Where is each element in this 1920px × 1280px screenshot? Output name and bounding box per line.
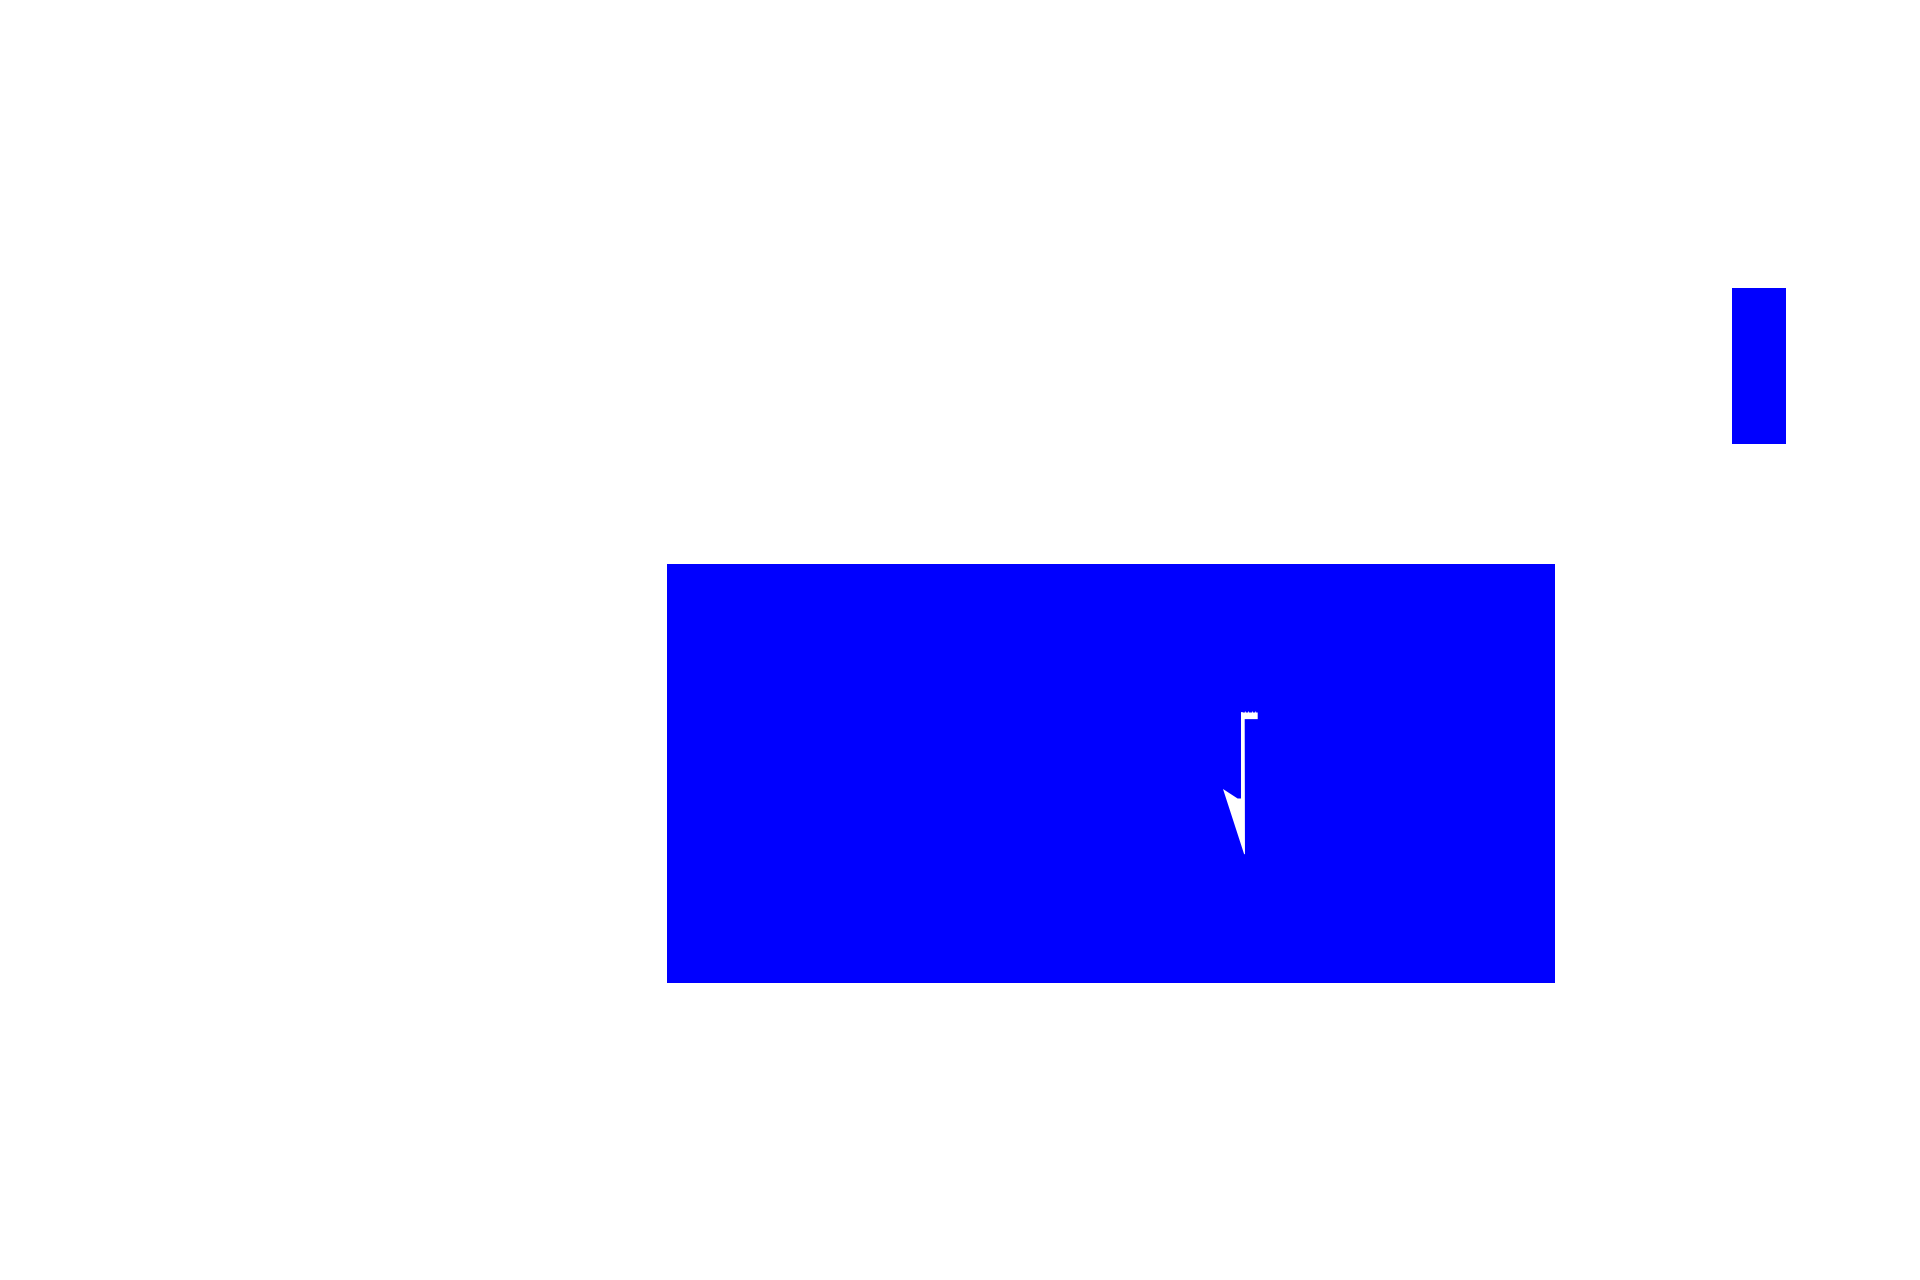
cursor arrow (white flag-pole pointer inside large rectangle): [1215, 700, 1275, 870]
large blue rectangle (center): [667, 564, 1555, 983]
small blue rectangle (top right): [1732, 288, 1786, 444]
